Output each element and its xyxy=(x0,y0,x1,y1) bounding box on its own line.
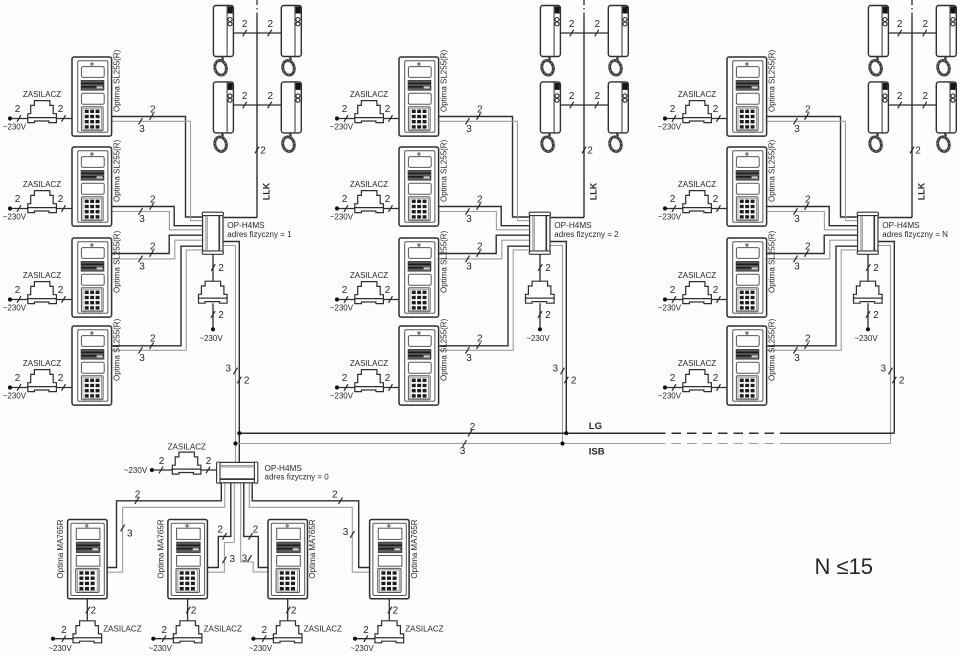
label: cable P3.2 3-core xyxy=(794,208,801,225)
label: cable P3.4 2-core xyxy=(805,334,812,350)
power supply PS2.H ZASILACZ for hub U2 xyxy=(526,281,555,298)
wire: PS0.4 to mains xyxy=(355,638,375,640)
wire: mains feed to power supply PS1.2 xyxy=(10,208,72,210)
wire: PS0.3 to mains xyxy=(253,638,273,640)
label: cable P2.4 3-core xyxy=(466,347,473,364)
label: PS2.H mains 2-core mark xyxy=(538,310,551,321)
label: PS0.4 mains 2-core mark xyxy=(363,625,369,642)
wire: hub U0 2-core to panel P0.2 xyxy=(207,483,230,568)
svg-text:2: 2 xyxy=(545,310,551,321)
svg-text:3: 3 xyxy=(230,554,236,565)
wire: hub U3 to LLK riser xyxy=(878,217,912,219)
wire: handset branch row 1 right, group 2 xyxy=(584,32,608,34)
svg-text:2: 2 xyxy=(58,194,64,205)
label: PS0.3 mains 2-core mark xyxy=(262,625,268,642)
label: P0.3 power 2-core mark xyxy=(286,606,297,617)
wire: LLK riser of group 1 xyxy=(256,17,258,218)
node: ~230V terminal of PS3.4 xyxy=(663,385,667,389)
door panel P3.2 Optima SL255(R) xyxy=(727,147,767,226)
svg-text:2: 2 xyxy=(470,422,476,433)
svg-text:ZASILACZ: ZASILACZ xyxy=(350,271,388,280)
wire: hub U0 2-core to panel P0.3 xyxy=(244,483,268,568)
wire: handset branch row 1 left, group 1 xyxy=(233,32,257,34)
wire: panel P0.4 power lead xyxy=(388,599,390,621)
svg-text:Optima MA765R: Optima MA765R xyxy=(56,519,65,578)
node: ~230V terminal of PS1.1 xyxy=(8,116,12,120)
svg-text:LG: LG xyxy=(589,421,602,432)
label: cable P3.4 3-core xyxy=(794,347,801,364)
svg-text:ZASILACZ: ZASILACZ xyxy=(678,180,716,189)
wire: hub U0 3-core to panel P0.4 xyxy=(249,483,369,572)
svg-text:2: 2 xyxy=(805,241,811,252)
svg-text:ZASILACZ: ZASILACZ xyxy=(23,359,61,368)
label: 2-core marks on PS2.4 feed xyxy=(342,373,393,391)
node: ~230V terminal of PS2.1 xyxy=(335,116,339,120)
svg-text:2: 2 xyxy=(805,194,811,205)
wire: hub U3 2-core drop to LG bus xyxy=(878,242,894,434)
svg-text:2: 2 xyxy=(805,104,811,115)
svg-text:2: 2 xyxy=(545,263,551,274)
wire: handset branch row 1 right, group 3 xyxy=(912,32,936,34)
door panel P2.3 Optima SL255(R) xyxy=(399,238,439,317)
label: hub U3 power 2-core mark xyxy=(866,263,879,274)
hub U0 OP-H4MS xyxy=(217,462,258,483)
hub U3 OP-H4MS xyxy=(857,212,878,254)
uniphone handset H2.4 xyxy=(608,82,628,153)
bus LG (solid-dashed-solid) xyxy=(239,432,894,434)
label: 2-core marks on PS1.1 feed xyxy=(15,104,66,122)
svg-text:2: 2 xyxy=(873,263,879,274)
svg-text:2: 2 xyxy=(15,104,21,115)
svg-text:Optima MA765R: Optima MA765R xyxy=(410,519,419,578)
wire: panel P1.1 2-core cable to hub U1 xyxy=(112,117,203,218)
node: ~230V terminal of PS1.2 xyxy=(8,206,12,210)
wire: LLK riser of group 3 xyxy=(911,17,913,218)
label: cable P2.2 2-core xyxy=(477,194,484,210)
label: cable P1.2 3-core xyxy=(139,208,146,225)
door panel P3.4 Optima SL255(R) xyxy=(727,326,767,405)
uniphone handset H2.1 xyxy=(540,6,560,77)
door panel P2.1 Optima SL255(R) xyxy=(399,57,439,136)
svg-text:2: 2 xyxy=(670,104,676,115)
wire: LLK riser of group 2 xyxy=(583,17,585,218)
svg-text:Optima SL255(R): Optima SL255(R) xyxy=(767,318,776,381)
junction: group2 2-core drop on LG xyxy=(564,431,568,435)
wire: mains feed to power supply PS3.1 xyxy=(665,118,727,120)
svg-text:OP-H4MS: OP-H4MS xyxy=(227,221,265,230)
svg-text:2: 2 xyxy=(135,489,141,500)
node: ~230V terminal of PS2.3 xyxy=(335,297,339,301)
wire: handset branch row 2 left, group 3 xyxy=(888,104,912,106)
svg-text:2: 2 xyxy=(595,91,601,102)
wire: panel P2.2 2-core cable to hub U2 xyxy=(439,207,530,226)
label: LLK riser 2-core mark xyxy=(910,146,921,157)
svg-text:~230V: ~230V xyxy=(330,304,354,313)
label: cable P1.4 2-core xyxy=(150,334,157,350)
label: cable P1.3 3-core xyxy=(139,256,146,273)
svg-text:3: 3 xyxy=(794,124,800,135)
svg-text:adres fizyczny = N: adres fizyczny = N xyxy=(882,230,948,239)
svg-text:2: 2 xyxy=(150,104,156,115)
label: ISB bus 3-core mark xyxy=(460,440,467,457)
node: ~230V terminal of PS3.3 xyxy=(663,297,667,301)
door panel P1.1 Optima SL255(R) xyxy=(72,57,112,136)
svg-text:2: 2 xyxy=(15,194,21,205)
svg-text:2: 2 xyxy=(897,19,903,30)
junction: group2 3-core drop on ISB xyxy=(560,441,564,445)
svg-text:2: 2 xyxy=(332,489,338,500)
label: cable marks P0.3 xyxy=(242,525,259,565)
power supply PS1.4 ZASILACZ xyxy=(28,370,57,387)
door panel P0.3 Optima MA765R xyxy=(268,520,308,599)
svg-text:3: 3 xyxy=(242,554,248,565)
door panel P2.2 Optima SL255(R) xyxy=(399,147,439,226)
power supply PS1.H ZASILACZ for hub U1 xyxy=(199,281,228,298)
power supply PS0.4 ZASILACZ xyxy=(375,621,404,638)
svg-text:~230V: ~230V xyxy=(3,304,27,313)
wire: panel P2.4 2-core cable to hub U2 xyxy=(439,246,530,346)
wire: hub U1 2-core drop to LG bus xyxy=(223,242,239,463)
label: PS0.1 mains 2-core mark xyxy=(61,625,67,642)
wire: panel P0.2 power lead xyxy=(187,599,189,621)
svg-text:ZASILACZ: ZASILACZ xyxy=(23,180,61,189)
svg-text:LLK: LLK xyxy=(589,182,599,200)
node: ~230V terminal of PS2.2 xyxy=(335,206,339,210)
uniphone handset H1.1 xyxy=(213,6,233,77)
svg-text:OP-H4MS: OP-H4MS xyxy=(554,221,592,230)
svg-text:adres fizyczny = 1: adres fizyczny = 1 xyxy=(227,230,292,239)
svg-text:adres fizyczny = 2: adres fizyczny = 2 xyxy=(554,230,619,239)
label: 2-core marks on PS2.3 feed xyxy=(342,285,393,303)
power supply PS3.4 ZASILACZ xyxy=(683,370,712,387)
svg-text:Optima SL255(R): Optima SL255(R) xyxy=(767,139,776,202)
wire: panel P2.3 2-core cable to hub U2 xyxy=(439,235,530,253)
junction: group1 3-core drop on ISB xyxy=(233,441,237,445)
svg-text:2: 2 xyxy=(15,285,21,296)
uniphone handset H3.4 xyxy=(936,82,956,153)
node: ~230V terminal of PS3.1 xyxy=(663,116,667,120)
wire: panel P3.1 3-core cable to hub U3 xyxy=(767,121,858,220)
svg-text:3: 3 xyxy=(460,446,466,457)
svg-text:ZASILACZ: ZASILACZ xyxy=(168,442,206,451)
svg-text:ZASILACZ: ZASILACZ xyxy=(350,90,388,99)
label: cable marks P0.4 xyxy=(332,489,354,538)
label: cable P1.3 2-core xyxy=(150,241,157,256)
wire: PS0.2 to mains xyxy=(153,638,173,640)
svg-text:Optima SL255(R): Optima SL255(R) xyxy=(112,49,121,112)
label: branch 2-core marks row 2 group 1 xyxy=(242,91,274,108)
svg-text:~230V: ~230V xyxy=(658,213,682,222)
wire: handset branch row 2 left, group 2 xyxy=(560,104,584,106)
svg-text:2: 2 xyxy=(191,606,197,617)
wire: panel P2.2 3-core cable to hub U2 xyxy=(439,212,530,230)
label: cable P3.2 2-core xyxy=(805,194,812,210)
wire: panel P1.3 3-core cable to hub U1 xyxy=(112,240,203,259)
svg-text:Optima SL255(R): Optima SL255(R) xyxy=(112,230,121,293)
svg-text:ZASILACZ: ZASILACZ xyxy=(23,90,61,99)
svg-text:ZASILACZ: ZASILACZ xyxy=(678,271,716,280)
wire: panel P3.3 2-core cable to hub U3 xyxy=(767,235,858,253)
svg-text:~230V: ~230V xyxy=(149,644,173,653)
label: cable P3.3 2-core xyxy=(805,241,812,256)
wire: hub U0 3-core to panel P0.2 xyxy=(207,483,234,572)
svg-text:2: 2 xyxy=(385,373,391,384)
wire: panel P1.1 3-core cable to hub U1 xyxy=(112,121,203,220)
svg-text:2: 2 xyxy=(206,456,212,467)
power supply PS2.2 ZASILACZ xyxy=(355,191,384,208)
wire: handset branch row 1 right, group 1 xyxy=(257,32,281,34)
svg-text:2: 2 xyxy=(477,241,483,252)
svg-text:2: 2 xyxy=(385,104,391,115)
svg-text:ZASILACZ: ZASILACZ xyxy=(204,624,242,633)
wire: handset branch row 2 right, group 1 xyxy=(257,104,281,106)
node: ~230V terminal of PS0.4 xyxy=(353,637,357,641)
svg-text:2: 2 xyxy=(150,241,156,252)
label: cable P1.4 3-core xyxy=(139,347,146,364)
wire: panel P2.4 3-core cable to hub U2 xyxy=(439,250,530,350)
svg-text:adres fizyczny = 0: adres fizyczny = 0 xyxy=(265,473,330,482)
svg-text:2: 2 xyxy=(260,146,266,157)
wire: PS3.H to mains xyxy=(867,303,869,329)
svg-text:~230V: ~230V xyxy=(124,466,148,475)
svg-text:2: 2 xyxy=(342,373,348,384)
wire: hub U0 3-core to panel P0.1 xyxy=(107,483,225,572)
wire: hub U0 2-core to panel P0.1 xyxy=(107,483,221,568)
label: P0.2 power 2-core mark xyxy=(186,606,197,617)
svg-text:2: 2 xyxy=(569,91,575,102)
wire: mains feed to power supply PS3.4 xyxy=(665,387,727,389)
label: P0.4 power 2-core mark xyxy=(388,606,399,617)
wire: panel P2.3 3-core cable to hub U2 xyxy=(439,240,530,259)
label: cable marks P0.1 xyxy=(121,489,141,539)
label: 2-core marks on PS2.2 feed xyxy=(342,194,393,212)
svg-text:OP-H4MS: OP-H4MS xyxy=(882,221,920,230)
svg-text:ZASILACZ: ZASILACZ xyxy=(678,90,716,99)
svg-text:~230V: ~230V xyxy=(48,644,72,653)
wire: panel P3.4 3-core cable to hub U3 xyxy=(767,250,858,350)
uniphone handset H3.1 xyxy=(868,6,888,77)
svg-text:2: 2 xyxy=(268,19,274,30)
wire: handset branch row 2 right, group 2 xyxy=(584,104,608,106)
uniphone handset H2.2 xyxy=(608,6,628,77)
svg-text:2: 2 xyxy=(61,625,67,636)
svg-text:~230V: ~230V xyxy=(199,334,223,343)
uniphone handset H1.3 xyxy=(213,82,233,153)
svg-text:2: 2 xyxy=(218,263,224,274)
label: cable P2.2 3-core xyxy=(466,208,473,225)
svg-text:2: 2 xyxy=(477,104,483,115)
label: branch 2-core marks row 2 group 2 xyxy=(569,91,601,108)
power supply PS0.1 ZASILACZ xyxy=(73,621,102,638)
label: cable P1.1 2-core xyxy=(150,104,157,120)
label: cable P2.3 2-core xyxy=(477,241,484,256)
label: LLK riser 2-core mark xyxy=(255,146,266,157)
uniphone handset H3.2 xyxy=(936,6,956,77)
label: 2-core marks on PS3.4 feed xyxy=(670,373,721,391)
svg-text:Optima SL255(R): Optima SL255(R) xyxy=(439,318,448,381)
node: ~230V terminal of PS1.H xyxy=(211,327,215,331)
svg-text:2: 2 xyxy=(291,606,297,617)
node: ~230V terminal of PS0.2 xyxy=(151,637,155,641)
power supply PS3.1 ZASILACZ xyxy=(683,101,712,118)
wire: mains feed to power supply PS2.3 xyxy=(337,299,399,301)
svg-text:ISB: ISB xyxy=(589,446,605,457)
node: ~230V terminal of PS0.3 xyxy=(251,637,255,641)
svg-text:~230V: ~230V xyxy=(3,213,27,222)
svg-text:~230V: ~230V xyxy=(658,304,682,313)
node: ~230V terminal of PS1.3 xyxy=(8,297,12,301)
svg-text:2: 2 xyxy=(244,375,250,386)
junction: group1 2-core drop on LG xyxy=(237,431,241,435)
svg-text:3: 3 xyxy=(343,527,349,538)
svg-text:LLK: LLK xyxy=(262,182,272,200)
wire: handset branch row 1 left, group 2 xyxy=(560,32,584,34)
svg-text:~230V: ~230V xyxy=(3,392,27,401)
wire: hub U0 2-core to panel P0.4 xyxy=(252,483,369,568)
svg-text:2: 2 xyxy=(713,285,719,296)
svg-text:~230V: ~230V xyxy=(330,213,354,222)
wire: mains feed to power supply PS3.3 xyxy=(665,299,727,301)
label: 2-core marks on PS3.3 feed xyxy=(670,285,721,303)
svg-text:2: 2 xyxy=(217,525,223,536)
svg-text:~230V: ~230V xyxy=(658,392,682,401)
svg-text:Optima SL255(R): Optima SL255(R) xyxy=(767,49,776,112)
svg-text:2: 2 xyxy=(385,194,391,205)
label: PS0.H feed 2-core marks xyxy=(159,456,212,473)
svg-text:2: 2 xyxy=(150,334,156,345)
label: cable P2.1 3-core xyxy=(466,118,473,135)
wire: mains feed to power supply PS2.4 xyxy=(337,387,399,389)
svg-text:Optima SL255(R): Optima SL255(R) xyxy=(439,49,448,112)
svg-text:2: 2 xyxy=(262,625,268,636)
svg-text:2: 2 xyxy=(91,606,97,617)
svg-text:2: 2 xyxy=(268,91,274,102)
svg-text:ZASILACZ: ZASILACZ xyxy=(103,624,141,633)
wire: mains feed to power supply PS2.1 xyxy=(337,118,399,120)
bus ISB (solid-dashed-solid) xyxy=(236,443,891,445)
svg-text:3: 3 xyxy=(139,214,145,225)
svg-text:2: 2 xyxy=(587,146,593,157)
label: cable marks P0.2 xyxy=(217,525,235,566)
svg-text:ZASILACZ: ZASILACZ xyxy=(405,624,443,633)
wire: hub U0 power lead xyxy=(152,469,217,471)
power supply PS0.2 ZASILACZ xyxy=(173,621,202,638)
label: drop cable marks of hub U1 xyxy=(225,364,249,387)
label: hub U1 power 2-core mark xyxy=(211,263,224,274)
svg-text:3: 3 xyxy=(139,124,145,135)
node: ~230V terminal of PS0.H xyxy=(150,468,154,472)
svg-text:2: 2 xyxy=(873,310,879,321)
label: LLK riser 2-core mark xyxy=(582,146,593,157)
wire: hub U1 power lead xyxy=(212,254,214,281)
svg-text:2: 2 xyxy=(342,285,348,296)
svg-text:ZASILACZ: ZASILACZ xyxy=(678,359,716,368)
door panel P0.4 Optima MA765R xyxy=(370,520,410,599)
wire: hub U0 3-core to panel P0.3 xyxy=(241,483,268,572)
wire: hub U2 power lead xyxy=(539,254,541,281)
svg-text:3: 3 xyxy=(794,214,800,225)
hub U2 OP-H4MS xyxy=(529,212,550,254)
label: 2-core marks on PS2.1 feed xyxy=(342,104,393,122)
svg-text:~230V: ~230V xyxy=(350,644,374,653)
label: PS0.2 mains 2-core mark xyxy=(161,625,167,642)
wire: panel P1.4 2-core cable to hub U1 xyxy=(112,246,203,346)
label: 2-core marks on PS1.3 feed xyxy=(15,285,66,303)
wire: PS2.H to mains xyxy=(539,303,541,329)
svg-text:3: 3 xyxy=(139,353,145,364)
wire: PS1.H to mains xyxy=(212,303,214,329)
wire: PS0.1 to mains xyxy=(53,638,73,640)
door panel P0.1 Optima MA765R xyxy=(68,520,108,599)
label: cable P3.3 3-core xyxy=(794,256,801,273)
svg-text:2: 2 xyxy=(670,194,676,205)
label: PS1.H mains 2-core mark xyxy=(211,310,224,321)
svg-text:ZASILACZ: ZASILACZ xyxy=(23,271,61,280)
wire: panel P3.3 3-core cable to hub U3 xyxy=(767,240,858,259)
label: hub U2 power 2-core mark xyxy=(538,263,551,274)
svg-text:Optima SL255(R): Optima SL255(R) xyxy=(439,139,448,202)
power supply PS0.H ZASILACZ for hub U0 xyxy=(172,452,201,469)
wire: panel P0.3 power lead xyxy=(287,599,289,621)
svg-text:2: 2 xyxy=(161,625,167,636)
svg-text:2: 2 xyxy=(342,104,348,115)
wire: panel P2.1 2-core cable to hub U2 xyxy=(439,117,530,218)
svg-text:2: 2 xyxy=(342,194,348,205)
power supply PS2.4 ZASILACZ xyxy=(355,370,384,387)
uniphone handset H1.4 xyxy=(281,82,301,153)
label: cable P2.1 2-core xyxy=(477,104,484,120)
svg-text:2: 2 xyxy=(363,625,369,636)
door panel P3.3 Optima SL255(R) xyxy=(727,238,767,317)
label: branch 2-core marks row 1 group 3 xyxy=(897,19,929,36)
label: cable P3.1 2-core xyxy=(805,104,812,120)
wire: mains feed to power supply PS2.2 xyxy=(337,208,399,210)
svg-text:2: 2 xyxy=(58,285,64,296)
door panel P3.1 Optima SL255(R) xyxy=(727,57,767,136)
svg-text:LLK: LLK xyxy=(917,182,927,200)
svg-text:2: 2 xyxy=(58,373,64,384)
wire: panel P1.4 3-core cable to hub U1 xyxy=(112,250,203,350)
svg-text:2: 2 xyxy=(923,19,929,30)
power supply PS3.H ZASILACZ for hub U3 xyxy=(854,281,883,298)
label: branch 2-core marks row 2 group 3 xyxy=(897,91,929,108)
hub U1 OP-H4MS xyxy=(202,212,223,254)
node: ~230V terminal of PS2.4 xyxy=(335,385,339,389)
wire: hub U2 2-core drop to LG bus xyxy=(550,242,566,434)
svg-text:2: 2 xyxy=(242,91,248,102)
label: cable P1.1 3-core xyxy=(139,118,146,135)
label: branch 2-core marks row 1 group 2 xyxy=(569,19,601,36)
wire: hub U2 3-core drop to ISB bus xyxy=(550,246,562,444)
svg-text:~230V: ~230V xyxy=(658,123,682,132)
svg-text:3: 3 xyxy=(466,214,472,225)
svg-text:2: 2 xyxy=(150,194,156,205)
svg-text:3: 3 xyxy=(466,124,472,135)
uniphone handset H1.2 xyxy=(281,6,301,77)
wire: mains feed to power supply PS1.3 xyxy=(10,299,72,301)
wire: panel P1.3 2-core cable to hub U1 xyxy=(112,235,203,253)
label: cable P1.2 2-core xyxy=(150,194,157,210)
svg-text:2: 2 xyxy=(253,525,259,536)
svg-text:2: 2 xyxy=(477,334,483,345)
label: branch 2-core marks row 1 group 1 xyxy=(242,19,274,36)
power supply PS2.1 ZASILACZ xyxy=(355,101,384,118)
power supply PS1.2 ZASILACZ xyxy=(28,191,57,208)
wire: panel P1.2 3-core cable to hub U1 xyxy=(112,212,203,230)
wire: hub U3 3-core drop to ISB bus xyxy=(878,246,890,444)
label: PS3.H mains 2-core mark xyxy=(866,310,879,321)
door panel P1.4 Optima SL255(R) xyxy=(72,326,112,405)
